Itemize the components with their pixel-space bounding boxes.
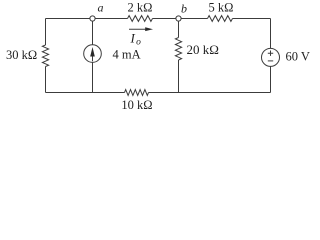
wire node-a column bottom lead xyxy=(92,62,94,92)
wire top-left segment xyxy=(46,18,128,20)
wire left rail top lead xyxy=(45,19,47,46)
wire top-right segment xyxy=(233,18,271,20)
wire left rail bottom lead xyxy=(45,67,47,93)
current Io arrowhead xyxy=(145,27,153,31)
wire top-middle segment xyxy=(153,18,208,20)
svg-text:20 kΩ: 20 kΩ xyxy=(187,42,219,57)
svg-text:60 V: 60 V xyxy=(286,50,310,64)
resistor R 5k zigzag xyxy=(208,16,233,22)
voltage source minus sign xyxy=(268,60,273,62)
resistor R 10k zigzag xyxy=(125,90,149,96)
voltage source V 60V circle xyxy=(262,48,280,66)
current Io arrow shaft xyxy=(129,28,147,30)
wire bottom-left segment xyxy=(46,92,125,94)
wire node-a column top lead xyxy=(92,19,94,45)
current source arrow shaft xyxy=(92,50,94,62)
resistor R 20k zigzag xyxy=(175,38,181,61)
wire right rail bottom lead xyxy=(270,66,272,92)
resistor R 30k zigzag xyxy=(42,45,48,67)
node b terminal circle xyxy=(176,16,181,21)
current source arrowhead xyxy=(90,47,95,57)
svg-text:4 mA: 4 mA xyxy=(113,48,141,62)
voltage source plus sign xyxy=(268,51,273,56)
svg-text:2 kΩ: 2 kΩ xyxy=(128,0,153,14)
svg-text:a: a xyxy=(98,1,104,15)
svg-text:5 kΩ: 5 kΩ xyxy=(209,0,234,14)
wire right rail top lead xyxy=(270,19,272,49)
svg-text:30 kΩ: 30 kΩ xyxy=(6,48,37,62)
svg-text:b: b xyxy=(181,2,187,16)
wire node-b column bottom lead xyxy=(178,60,180,93)
current source I 4mA circle xyxy=(84,45,102,63)
wire node-b column top lead xyxy=(178,19,180,38)
node a terminal circle xyxy=(90,16,95,21)
svg-text:10 kΩ: 10 kΩ xyxy=(121,98,152,112)
wire bottom-right segment xyxy=(149,92,271,94)
resistor R 2k zigzag xyxy=(128,16,153,22)
